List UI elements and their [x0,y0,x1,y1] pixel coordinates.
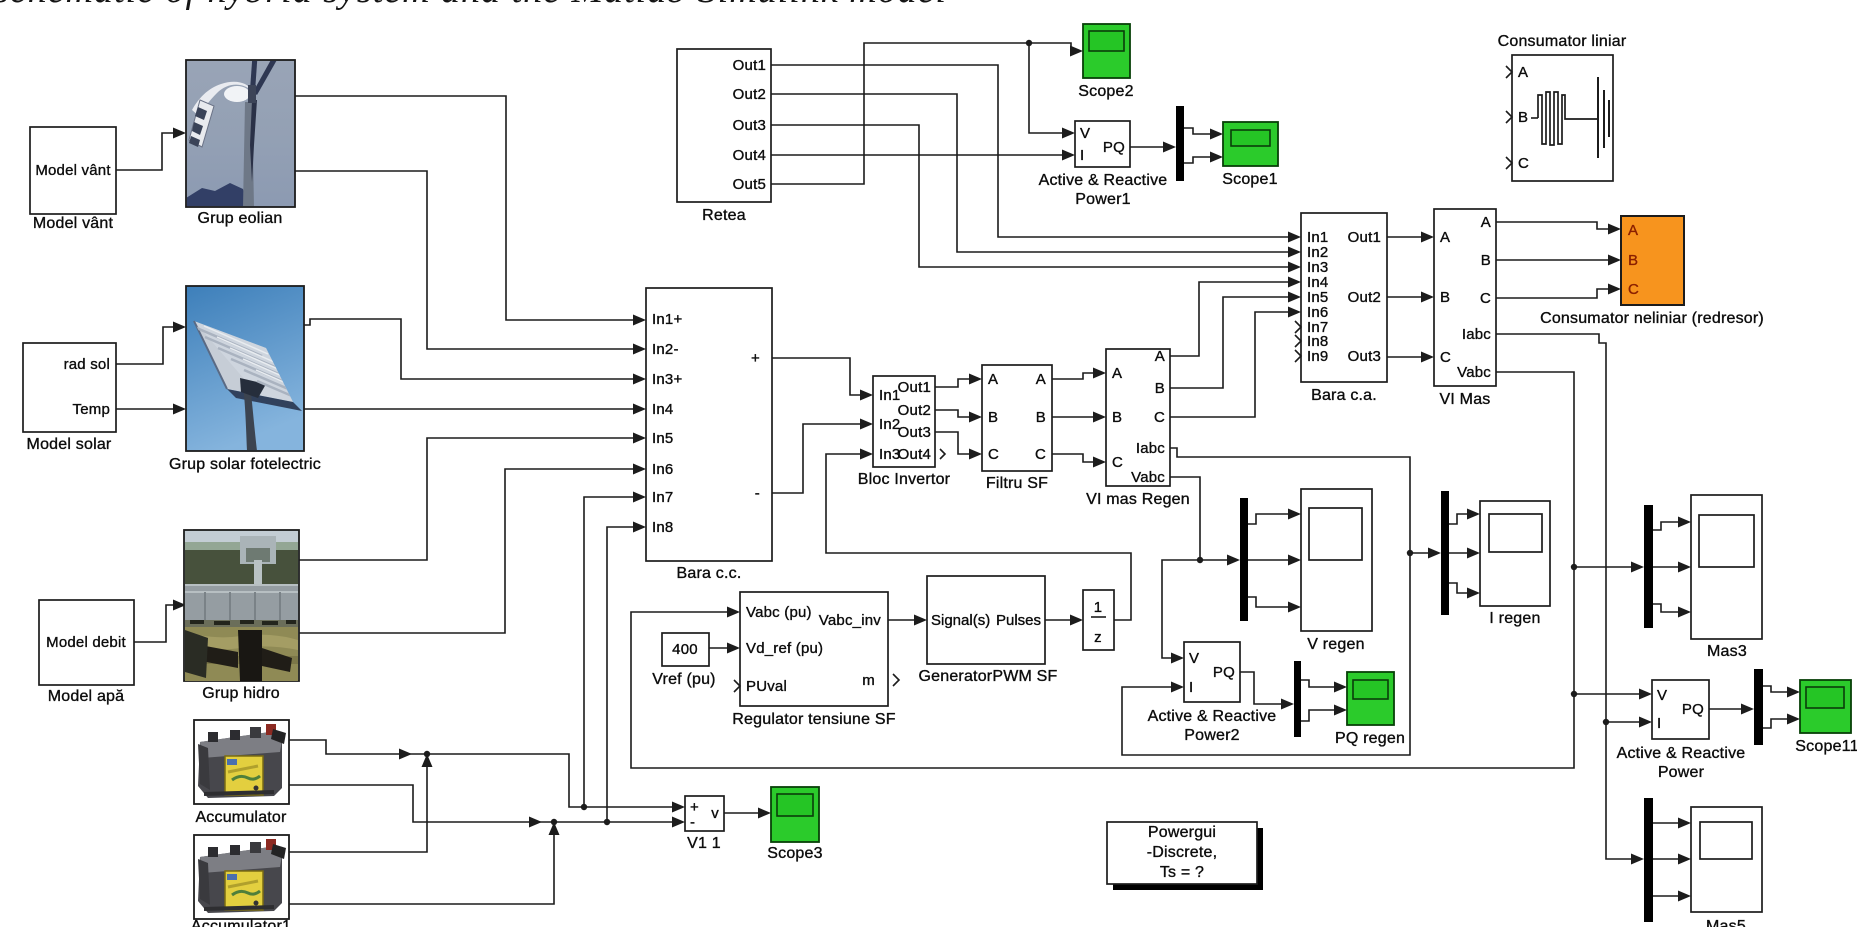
wire Filtru SF A to VI mas Regen A [1052,373,1094,379]
wire VI Mas B to Consumator neliniar B [1496,259,1609,261]
wire VI mas Regen A to Bara c.a. In4 [1170,282,1289,356]
svg-text:Pulses: Pulses [996,612,1041,629]
block Accumulator1 (battery photo) [194,835,289,919]
svg-text:Active & Reactive: Active & Reactive [1148,708,1277,725]
svg-text:C: C [1112,454,1123,471]
block VI Mas [1434,209,1496,386]
wire Mas3 demux out3 [1653,604,1679,612]
svg-text:Scope3: Scope3 [767,845,822,862]
svg-text:Out4: Out4 [898,446,931,463]
demux Scope11 [1754,669,1763,745]
svg-text:I: I [1657,715,1661,732]
wire Retea Out3 to Bara c.a. In3 [771,125,1289,267]
wire mux to Scope1 in2 [1184,157,1211,163]
wire Bloc Invertor Out2 to Filtru SF B [935,410,970,417]
svg-text:Scope11: Scope11 [1795,738,1857,755]
svg-text:Vabc: Vabc [1131,469,1165,486]
wire Accumulator1 out2 to minus rail [289,834,554,904]
svg-text:Power1: Power1 [1075,191,1130,208]
block 1/z unit delay [1083,590,1114,650]
wire Model vant to Grup eolian [116,133,174,170]
block V1 1 voltage measurement [685,796,724,831]
svg-text:PQ: PQ [1103,139,1125,156]
svg-text:A: A [1112,365,1122,382]
svg-text:PQ regen: PQ regen [1335,730,1405,747]
wire VI mas Regen B to Bara c.a. In5 [1170,297,1289,388]
svg-text:Out2: Out2 [1348,289,1381,306]
svg-text:V1 1: V1 1 [687,835,721,852]
svg-text:In9: In9 [1307,348,1328,365]
wire Power1 PQ to mux Scope1 [1130,146,1164,148]
svg-text:PQ: PQ [1682,701,1704,718]
block Scope3 [771,787,819,842]
svg-text:In7: In7 [652,489,673,506]
svg-text:Iabc: Iabc [1462,326,1491,343]
svg-text:Model apă: Model apă [48,688,125,705]
svg-text:C: C [988,446,999,463]
svg-text:In6: In6 [652,461,673,478]
block Model debit [39,600,134,685]
svg-text:m: m [862,672,875,689]
svg-text:A: A [1481,214,1491,231]
svg-text:Out2: Out2 [733,86,766,103]
svg-text:-Discrete,: -Discrete, [1147,844,1217,861]
block Scope2 [1083,24,1130,78]
wire Grup hidro out1 to Bara c.c. In5 [299,438,634,560]
block Scope1 [1223,122,1278,166]
demux PQ regen [1294,661,1301,737]
block Retea [677,49,771,202]
icon RL load inside Consumator liniar [1531,117,1538,119]
wire Accumulator plus rail to V1 1 + [289,740,673,807]
svg-text:Model debit: Model debit [46,634,126,651]
svg-text:Bloc Invertor: Bloc Invertor [858,471,951,488]
wire Power2 PQ to PQ regen demux [1240,672,1282,704]
wire V1 1 to Scope3 [724,812,759,814]
svg-text:B: B [1440,289,1450,306]
svg-text:In4: In4 [652,401,673,418]
svg-text:z: z [1094,629,1102,646]
svg-text:Grup hidro: Grup hidro [202,685,280,702]
svg-text:Vabc (pu): Vabc (pu) [746,604,812,621]
wire VI mas Regen Iabc to I regen mux and Power2 I [1122,448,1410,755]
wire Bloc Invertor Out3 to Filtru SF C [935,432,970,454]
svg-text:PUval: PUval [746,678,787,695]
block Accumulator (battery photo) [194,720,289,804]
wire I regen mux out1 [1449,514,1468,524]
mux I regen [1441,491,1449,615]
wire Mas5 demux out1 [1653,822,1679,824]
block GeneratorPWM SF [927,576,1045,664]
wire PQ regen demux out2 [1301,710,1335,721]
svg-text:A: A [1440,229,1450,246]
svg-text:I regen: I regen [1489,610,1540,627]
mux Scope1 [1176,106,1184,181]
wire Bara c.c. + to Bloc Invertor In1 [772,358,861,395]
wire GeneratorPWM Pulses to 1/z [1045,619,1071,621]
block Filtru SF [982,365,1052,471]
block V regen scope [1301,489,1372,631]
block VI mas Regen [1106,349,1170,486]
svg-text:A: A [1628,222,1638,239]
block Bloc Invertor [873,376,935,467]
wire Bara c.a. Out1 to VI Mas A [1387,236,1422,238]
svg-text:Active & Reactive: Active & Reactive [1039,172,1168,189]
svg-text:Vabc_inv: Vabc_inv [819,612,881,629]
svg-text:rad sol: rad sol [64,356,110,373]
wire Filtru SF B to VI mas Regen B [1052,416,1094,418]
wire Grup solar out1 to Bara c.c. In3+ [304,319,634,379]
svg-text:Model vânt: Model vânt [33,215,114,232]
wire Mas3 demux out1 [1653,522,1679,530]
wire Retea Out4 to Power1 I [771,154,1063,156]
wire VI Mas Iabc to Mas5 demux and Power I [1496,334,1632,859]
svg-text:Out4: Out4 [733,147,766,164]
wire Bloc Invertor Out1 to Filtru SF A [935,379,970,387]
svg-text:V: V [1080,125,1090,142]
demux V regen [1240,498,1248,621]
wire Mas5 demux out2 [1653,858,1679,860]
wire I regen mux out3 [1449,583,1468,593]
block Grup solar fotelectric (solar panel photo) [186,286,327,451]
svg-text:PQ: PQ [1213,664,1235,681]
svg-text:A: A [1155,348,1165,365]
svg-text:Grup solar fotelectric: Grup solar fotelectric [169,456,321,473]
block Powergui [1113,828,1263,890]
block Vref 400 constant [662,633,709,666]
wire VI Mas Vabc feedback to Regulator Vabc and Mas3, Power V [631,372,1574,768]
wire VI Mas C to Consumator neliniar C [1496,289,1609,298]
wire 1/z feedback to Bloc Invertor In3 [826,454,1131,620]
wire V regen demux out2 [1248,559,1289,561]
svg-text:Out1: Out1 [733,57,766,74]
svg-text:Mas3: Mas3 [1707,643,1747,660]
svg-text:C: C [1480,290,1491,307]
svg-text:C: C [1628,281,1639,298]
wire Mas3 demux out2 [1653,566,1679,568]
block Active & Reactive Power1 [1075,121,1130,167]
svg-text:VI mas Regen: VI mas Regen [1086,491,1190,508]
svg-text:Signal(s): Signal(s) [931,612,990,629]
svg-text:Bara c.c.: Bara c.c. [677,565,742,582]
svg-text:B: B [1628,252,1638,269]
svg-text:Power2: Power2 [1184,727,1239,744]
demux Mas3 [1644,505,1653,628]
wire Power PQ to Scope11 demux [1709,708,1742,710]
svg-text:V: V [1657,687,1667,704]
svg-text:Scope2: Scope2 [1078,83,1133,100]
svg-text:Out3: Out3 [1348,348,1381,365]
svg-text:Retea: Retea [702,207,746,224]
wire plus rail to Bara c.c. In7 [584,497,634,807]
block Active & Reactive Power [1652,680,1709,739]
wire Scope11 demux out1 [1763,686,1788,692]
wire Bara c.a. Out2 to VI Mas B [1387,296,1422,298]
wire Accumulator minus rail to V1 1 - [289,785,673,822]
block Mas3 scope [1691,495,1762,639]
svg-text:B: B [988,409,998,426]
svg-text:I: I [1080,147,1084,164]
block Grup hidro (hydro station photo) [184,530,299,681]
block Grup eolian (wind turbine photo) [186,6,295,207]
block Regulator tensiune SF [740,592,888,706]
wire Filtru SF C to VI mas Regen C [1052,454,1094,462]
wire Retea Out5 to Scope2 and Power1 V [771,43,1071,184]
svg-text:In1+: In1+ [652,311,682,328]
svg-text:A: A [988,371,998,388]
svg-text:Consumator neliniar (redresor): Consumator neliniar (redresor) [1540,310,1764,327]
svg-text:B: B [1155,380,1165,397]
svg-text:In8: In8 [652,519,673,536]
svg-text:B: B [1518,109,1528,126]
svg-text:Vref (pu): Vref (pu) [652,671,715,688]
svg-text:Iabc: Iabc [1136,440,1165,457]
wire Retea Out2 to Bara c.a. In2 [771,94,1289,252]
svg-text:I: I [1189,679,1193,696]
svg-text:Grup eolian: Grup eolian [198,210,283,227]
svg-text:B: B [1481,252,1491,269]
svg-text:-: - [690,814,695,831]
block I regen scope [1480,501,1550,606]
wire VI mas Regen C to Bara c.a. In6 [1170,312,1289,417]
svg-text:VI Mas: VI Mas [1440,391,1491,408]
svg-text:Accumulator1: Accumulator1 [191,918,291,927]
svg-text:Bara c.a.: Bara c.a. [1311,387,1377,404]
block Bara c.c. [646,288,772,561]
svg-text:Out5: Out5 [733,176,766,193]
wire Bara c.c. - to Bloc Invertor In2 [772,424,861,493]
svg-text:Out3: Out3 [733,117,766,134]
wire Regulator Vabc_inv to GeneratorPWM [888,619,915,621]
wire Retea Out1 to Bara c.a. In1 [771,65,1289,237]
block Bara c.a. [1301,213,1387,382]
wire V regen demux out1 [1248,514,1289,524]
svg-text:A: A [1036,371,1046,388]
svg-text:Model solar: Model solar [27,436,112,453]
svg-text:Vd_ref (pu): Vd_ref (pu) [746,640,823,657]
svg-text:V: V [1189,650,1199,667]
block Consumator neliniar (redresor) [1621,216,1684,305]
wire Grup hidro out2 to Bara c.c. In6 [299,469,634,633]
svg-text:400: 400 [672,641,698,658]
wire PQ regen demux out1 [1301,680,1335,687]
svg-text:+: + [751,350,760,367]
svg-text:v: v [711,805,719,822]
svg-text:In2-: In2- [652,341,679,358]
svg-text:1: 1 [1094,599,1103,616]
svg-text:Consumator liniar: Consumator liniar [1498,33,1627,50]
svg-text:GeneratorPWM SF: GeneratorPWM SF [918,668,1057,685]
block Model vant [30,127,116,214]
wire VI mas Regen Vabc to V regen demux and Power2 V [1170,477,1228,560]
block Model solar [23,343,116,432]
svg-text:A: A [1518,64,1528,81]
svg-text:Ts = ?: Ts = ? [1160,864,1204,881]
svg-text:Powergui: Powergui [1148,824,1216,841]
wire Grup eolian out2 to Bara c.c. In2- [295,171,634,349]
wire Mas5 demux out3 [1653,895,1679,897]
wire mux to Scope1 in1 [1184,128,1211,134]
svg-text:-: - [755,485,760,502]
svg-text:Filtru SF: Filtru SF [986,475,1048,492]
wire V regen demux out3 [1248,597,1289,607]
svg-text:Out3: Out3 [898,424,931,441]
svg-text:In3+: In3+ [652,371,682,388]
svg-text:Scope1: Scope1 [1222,171,1277,188]
svg-text:Regulator tensiune SF: Regulator tensiune SF [732,711,895,728]
wire I regen mux out2 [1449,552,1468,554]
svg-text:C: C [1440,349,1451,366]
svg-text:Accumulator: Accumulator [195,809,287,826]
svg-text:Vabc: Vabc [1457,364,1491,381]
wire VI Mas A to Consumator neliniar A [1496,222,1609,229]
wire Grup solar out2 to Bara c.c. In4 [304,408,634,410]
wire Model debit to Grup hidro [134,605,174,642]
block Scope11 [1800,680,1851,733]
svg-text:C: C [1035,446,1046,463]
svg-text:C: C [1518,155,1529,172]
demux Mas5 [1644,798,1653,922]
svg-text:Out1: Out1 [1348,229,1381,246]
svg-text:Out1: Out1 [898,379,931,396]
block Active & Reactive Power2 [1184,642,1240,702]
svg-text:Model vânt: Model vânt [35,162,111,179]
wire Vref 400 to Regulator Vd_ref [709,647,728,649]
wire minus rail to Bara c.c. In8 [607,527,634,822]
svg-text:Active & Reactive: Active & Reactive [1617,745,1746,762]
svg-text:Power: Power [1658,764,1705,781]
block PQ regen scope [1347,672,1394,725]
svg-text:B: B [1112,409,1122,426]
wire Temp to Grup solar [116,408,174,410]
svg-text:B: B [1036,409,1046,426]
svg-text:C: C [1154,409,1165,426]
block Mas5 scope [1691,807,1762,912]
svg-text:In5: In5 [652,430,673,447]
svg-text:schematic of hybrid system and: schematic of hybrid system and the Matla… [0,0,947,11]
wire Accumulator1 out1 to plus rail [289,766,427,852]
svg-text:Temp: Temp [73,401,110,418]
wire Grup eolian out1 to Bara c.c. In1+ [295,96,634,320]
svg-text:Out2: Out2 [898,402,931,419]
wire rad sol to Grup solar [116,327,174,364]
svg-text:Mas5: Mas5 [1706,918,1746,927]
wire Bara c.a. Out3 to VI Mas C [1387,356,1422,358]
wire Scope11 demux out2 [1763,719,1788,728]
svg-text:V regen: V regen [1307,636,1364,653]
